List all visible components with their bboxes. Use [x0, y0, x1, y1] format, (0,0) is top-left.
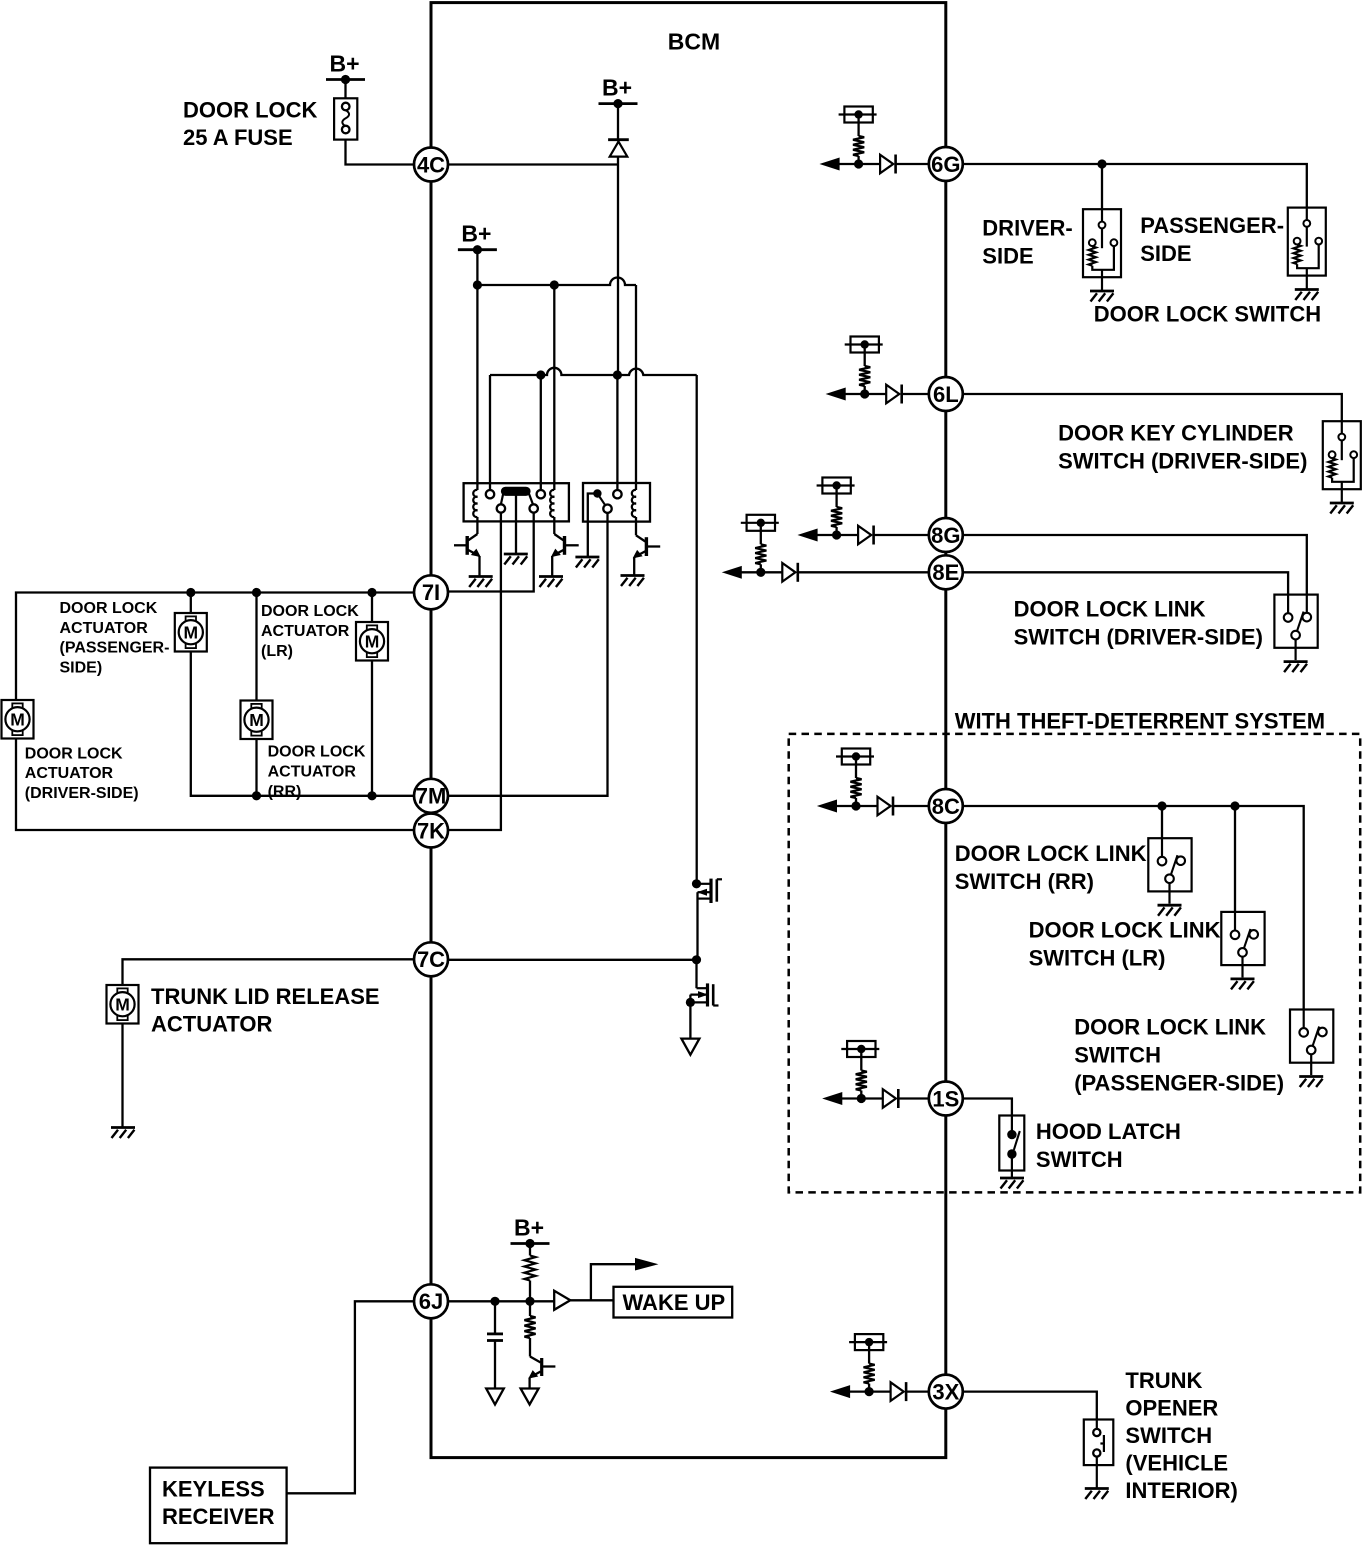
ground (passenger door lock switch)	[1295, 288, 1319, 291]
svg-text:DRIVER-: DRIVER-	[982, 216, 1072, 241]
relay K1 switch pivots	[506, 487, 527, 496]
wire coil1 to Q1	[476, 517, 478, 534]
wire 3X line to CPU arrow	[849, 1390, 869, 1392]
wire 6L line to CPU arrow	[845, 393, 865, 395]
ground (Q3 emitter)	[621, 574, 645, 577]
svg-text:B+: B+	[602, 75, 632, 101]
node actuator RR return	[252, 791, 261, 800]
wire actuator driver return to 7K	[16, 739, 414, 831]
wire 6J internal line	[448, 1300, 554, 1302]
node actuator RR feed	[252, 588, 261, 597]
diode D-1S	[883, 1089, 896, 1108]
relay K1 contact right	[530, 504, 538, 512]
svg-text:INTERIOR): INTERIOR)	[1125, 1478, 1237, 1503]
arrow to CPU (6L)	[827, 388, 845, 400]
wire 8G junction to diode	[837, 534, 859, 536]
wire 7C to trunk actuator	[123, 959, 415, 985]
node actuator LR return	[367, 791, 376, 800]
node rail A at coil1 feed	[473, 280, 482, 289]
diode D-8C	[878, 797, 891, 816]
node 8G junction	[832, 530, 841, 539]
wire 8G line to CPU arrow	[817, 534, 837, 536]
wire 1S junction to diode	[861, 1097, 883, 1099]
svg-text:7I: 7I	[422, 580, 440, 605]
connector 7K	[414, 814, 448, 848]
svg-text:M: M	[365, 631, 380, 651]
svg-text:(RR): (RR)	[268, 784, 302, 801]
door lock switch (passenger-side) lower	[1294, 245, 1301, 264]
node 8C wire source-to-resistor	[855, 757, 857, 779]
wire diode to pin 1S	[898, 1097, 929, 1099]
wire fuse to 4C	[346, 140, 415, 165]
svg-text:DOOR LOCK: DOOR LOCK	[261, 603, 359, 620]
svg-text:WAKE UP: WAKE UP	[623, 1290, 726, 1315]
connector 7I	[414, 575, 448, 609]
svg-text:3X: 3X	[932, 1380, 959, 1405]
svg-text:(PASSENGER-SIDE): (PASSENGER-SIDE)	[1074, 1071, 1284, 1096]
wire cap to arrow	[494, 1341, 496, 1389]
node 6L pull-up source box	[851, 337, 879, 353]
wire 7C internal	[448, 959, 697, 961]
svg-text:KEYLESS: KEYLESS	[162, 1476, 265, 1501]
motor door lock actuator (driver-side)	[2, 700, 34, 739]
node 8G pull-up source box	[822, 478, 850, 494]
svg-text:DOOR LOCK: DOOR LOCK	[60, 600, 158, 617]
wire 8E line to CPU arrow	[741, 571, 761, 573]
ground (key cylinder switch)	[1330, 502, 1354, 505]
svg-text:8G: 8G	[931, 523, 960, 548]
svg-text:DOOR LOCK SWITCH: DOOR LOCK SWITCH	[1094, 302, 1321, 327]
node 1S junction	[857, 1094, 866, 1103]
wire 6J to keyless receiver	[287, 1301, 414, 1493]
wire B+ to diode	[617, 104, 619, 142]
buffer U1	[554, 1291, 570, 1310]
wire diode to pin 3X	[906, 1390, 929, 1392]
relay K1 coil 2	[550, 490, 554, 517]
connector 6G	[929, 147, 963, 181]
node 8C pull-up source box	[842, 749, 870, 765]
wire resistor to 6L line	[864, 386, 866, 394]
node 6G wire source-to-resistor	[857, 115, 859, 137]
node 3X junction	[865, 1387, 874, 1396]
door lock switch (driver-side) upper	[1083, 209, 1121, 277]
svg-text:B+: B+	[514, 1215, 544, 1241]
svg-text:DOOR LOCK: DOOR LOCK	[183, 97, 318, 122]
arrow wake-up	[636, 1259, 657, 1270]
svg-text:6G: 6G	[931, 152, 960, 177]
node rail B at relay1 pin	[536, 370, 545, 379]
connector 3X	[929, 1375, 963, 1409]
node actuator LR feed	[367, 588, 376, 597]
wire R2 branch	[529, 1301, 531, 1316]
svg-text:M: M	[184, 622, 199, 642]
arrow to CPU (3X)	[832, 1386, 850, 1398]
arrow to CPU (8E)	[723, 567, 741, 579]
svg-text:SWITCH (LR): SWITCH (LR)	[1029, 945, 1166, 970]
rail B wire	[490, 368, 697, 375]
wire K1 left contact to 7K	[448, 513, 501, 831]
connector 6J	[414, 1284, 448, 1318]
wire driver switch feed	[1101, 164, 1103, 209]
node rail A at coil2 feed	[550, 280, 559, 289]
ground (trunk actuator)	[111, 1126, 135, 1129]
diode D-3X	[891, 1382, 904, 1401]
relay K1 pin2 contact	[486, 490, 494, 498]
svg-text:7M: 7M	[416, 784, 447, 809]
svg-text:M: M	[249, 710, 264, 730]
svg-text:SWITCH: SWITCH	[1036, 1147, 1123, 1172]
svg-text:ACTUATOR: ACTUATOR	[25, 765, 114, 782]
door lock switch (passenger-side) upper	[1288, 208, 1326, 276]
door key cylinder switch lower	[1329, 458, 1336, 477]
svg-text:8C: 8C	[932, 794, 960, 819]
svg-text:B+: B+	[461, 221, 491, 247]
wire diode branch down	[617, 157, 619, 375]
wire trunk actuator to ground	[121, 1024, 123, 1128]
wire 6L junction to diode	[865, 393, 887, 395]
motor door lock actuator (LR)	[356, 622, 388, 661]
wire resistor to 8E line	[760, 564, 762, 572]
svg-text:M: M	[115, 994, 130, 1014]
ground (link switch passenger)	[1299, 1075, 1323, 1078]
node 8E junction	[756, 568, 765, 577]
wire diode feed to relay2 pin	[616, 375, 618, 490]
wire 8G to link switch right pin	[963, 535, 1307, 595]
svg-text:6L: 6L	[933, 382, 959, 407]
svg-text:SWITCH (DRIVER-SIDE): SWITCH (DRIVER-SIDE)	[1058, 449, 1307, 474]
door key cylinder switch upper	[1323, 421, 1361, 489]
wire R1 to 6J line	[529, 1281, 531, 1302]
relay K2 switch arm	[597, 494, 605, 506]
relay K2 coil	[632, 490, 636, 517]
wire 7M to actuators	[191, 652, 414, 796]
arrow to CPU (8G)	[799, 529, 817, 541]
wire 6L to key cylinder switch	[963, 394, 1342, 421]
relay K2 fixed pivot	[593, 489, 601, 497]
node 8E pull-up source box	[747, 515, 775, 531]
node 6G pull-up source box	[844, 107, 872, 123]
wire actuator RR return	[255, 739, 257, 796]
svg-text:DOOR LOCK LINK: DOOR LOCK LINK	[955, 841, 1147, 866]
svg-text:DOOR LOCK: DOOR LOCK	[25, 745, 123, 762]
resistor R-1S pull-up	[856, 1071, 867, 1091]
ground (link switch driver)	[1284, 660, 1308, 663]
svg-text:ACTUATOR: ACTUATOR	[268, 764, 357, 781]
svg-text:ACTUATOR: ACTUATOR	[151, 1011, 273, 1036]
svg-text:7K: 7K	[417, 818, 445, 843]
resistor R-6G pull-up	[853, 136, 864, 156]
connector 7M	[414, 779, 448, 813]
wire resistor to 6G line	[857, 156, 859, 164]
svg-text:(PASSENGER-: (PASSENGER-	[60, 640, 170, 657]
ground (relay K1 common)	[504, 553, 528, 556]
svg-text:25 A FUSE: 25 A FUSE	[183, 125, 293, 150]
svg-text:HOOD LATCH: HOOD LATCH	[1036, 1119, 1181, 1144]
door lock link switch (passenger-side)	[1290, 1010, 1333, 1063]
connector 8C	[929, 789, 963, 823]
wire wake-up arrow branch	[591, 1264, 636, 1300]
wire 3X to trunk opener switch	[963, 1392, 1097, 1420]
wire B+ down to rail A	[476, 250, 478, 285]
wire 1S to hood latch switch	[963, 1099, 1012, 1116]
arrow to CPU (6G)	[821, 158, 839, 170]
node rail B diode feed	[613, 370, 622, 379]
svg-text:DOOR LOCK LINK: DOOR LOCK LINK	[1029, 917, 1221, 942]
wire link RR feed	[1161, 806, 1163, 838]
wire diode to pin 8E	[798, 571, 929, 573]
motor door lock actuator (RR)	[241, 701, 273, 740]
node actuator P feed	[186, 588, 195, 597]
svg-text:SIDE: SIDE	[982, 244, 1033, 269]
relay K2 box	[583, 483, 650, 522]
wire 8C line to CPU arrow	[836, 805, 856, 807]
node 6L junction	[860, 389, 869, 398]
svg-text:SIDE: SIDE	[1140, 241, 1191, 266]
arrow output to ground	[681, 1039, 699, 1055]
transistor Q3	[636, 535, 645, 541]
wire 8E junction to diode	[761, 571, 783, 573]
door lock link switch (driver-side)	[1274, 595, 1317, 648]
keyless receiver box	[150, 1468, 287, 1544]
wire cap branch	[494, 1301, 496, 1333]
relay K1 contact left	[497, 504, 505, 512]
door lock link switch (LR)	[1221, 912, 1264, 965]
motor trunk lid release actuator	[107, 985, 139, 1024]
svg-text:6J: 6J	[419, 1289, 443, 1314]
diode D1 (vertical)	[608, 138, 629, 141]
node 6J at capacitor	[490, 1297, 499, 1306]
svg-text:(DRIVER-SIDE): (DRIVER-SIDE)	[25, 785, 139, 802]
hood latch switch	[999, 1116, 1024, 1171]
wire K1 right contact to 7I	[448, 513, 534, 592]
wire relay2 coil feed down	[635, 285, 637, 490]
wire 6G junction to diode	[859, 163, 881, 165]
ground (hood latch switch)	[1000, 1177, 1024, 1180]
node 6G junction	[854, 159, 863, 168]
relay K1 pin5 contact	[537, 490, 545, 498]
connector 4C	[414, 148, 448, 182]
resistor R1 wake-up pull-up	[524, 1256, 535, 1281]
wire link LR feed	[1234, 806, 1236, 912]
node 6J at R junction	[525, 1297, 534, 1306]
relay K2 contact	[603, 505, 611, 513]
resistor R-8E pull-up	[755, 544, 766, 564]
svg-text:ACTUATOR: ACTUATOR	[60, 620, 149, 637]
wire K2 coil to Q3	[635, 517, 637, 535]
node 6L wire source-to-resistor	[864, 345, 866, 367]
transistor Q1	[468, 534, 477, 540]
svg-text:(VEHICLE: (VEHICLE	[1125, 1450, 1228, 1475]
connector 8G	[929, 518, 963, 552]
wire actuator RR feed	[255, 593, 257, 701]
svg-text:DOOR LOCK LINK: DOOR LOCK LINK	[1014, 596, 1206, 621]
wire coil1 feed	[476, 285, 478, 490]
node 8G wire source-to-resistor	[835, 486, 837, 508]
wire 3X junction to diode	[869, 1390, 891, 1392]
svg-text:SWITCH: SWITCH	[1125, 1423, 1212, 1448]
svg-text:ACTUATOR: ACTUATOR	[261, 623, 350, 640]
diode D-6G	[880, 155, 893, 174]
wire 7I to actuators	[16, 593, 414, 701]
FET Q5 (low side)	[695, 960, 697, 988]
relay K1 box	[464, 483, 569, 521]
wire diode to pin 6L	[902, 393, 929, 395]
relay K1 switch arm left	[501, 491, 504, 506]
node driver switch feed	[1097, 159, 1106, 168]
wire K1 common to ground	[515, 493, 517, 554]
ground (driver door lock switch)	[1090, 290, 1114, 293]
fuse DOOR LOCK 25A	[334, 98, 357, 139]
wire actuator LR feed	[371, 593, 373, 623]
wire K2 fixed to ground	[588, 494, 598, 558]
node link LR feed	[1230, 801, 1239, 810]
svg-text:RECEIVER: RECEIVER	[162, 1504, 275, 1529]
resistor R-8G pull-up	[831, 507, 842, 527]
resistor R-6L pull-up	[859, 366, 870, 386]
ground (Q2 emitter)	[539, 575, 563, 578]
svg-text:4C: 4C	[417, 152, 445, 177]
svg-text:B+: B+	[329, 51, 359, 77]
connector 6L	[929, 377, 963, 411]
svg-text:PASSENGER-: PASSENGER-	[1140, 213, 1284, 238]
node 1S wire source-to-resistor	[860, 1049, 862, 1071]
relay K1 coil 1	[473, 490, 477, 517]
ground (trunk opener switch)	[1085, 1487, 1109, 1490]
svg-text:(LR): (LR)	[261, 643, 293, 660]
arrow Q6 emitter to ground	[521, 1389, 539, 1405]
resistor R-3X pull-up	[864, 1364, 875, 1384]
door lock switch (driver-side) lower	[1089, 246, 1096, 265]
diode D-6L	[886, 385, 899, 404]
capacitor C1	[487, 1333, 503, 1336]
wire rail B left end down	[489, 375, 491, 490]
connector 1S	[929, 1082, 963, 1116]
wire 8C to link switches	[963, 806, 1304, 1010]
wire 6G line to CPU arrow	[839, 163, 859, 165]
svg-text:TRUNK: TRUNK	[1125, 1368, 1202, 1393]
svg-text:TRUNK LID RELEASE: TRUNK LID RELEASE	[151, 984, 380, 1009]
arrow cap to ground	[486, 1389, 504, 1405]
node 3X pull-up source box	[855, 1334, 883, 1350]
wire coil2 to Q2	[553, 517, 555, 534]
svg-text:BCM: BCM	[668, 29, 720, 55]
svg-text:WITH THEFT-DETERRENT SYSTEM: WITH THEFT-DETERRENT SYSTEM	[955, 708, 1325, 733]
svg-text:7C: 7C	[417, 947, 445, 972]
ground (link switch RR)	[1158, 904, 1182, 907]
wake up box	[614, 1287, 733, 1318]
wire 8E to link switch left pin	[963, 572, 1288, 594]
wire 6G to door lock switches	[963, 164, 1307, 208]
svg-text:SWITCH: SWITCH	[1074, 1043, 1161, 1068]
wire 8C junction to diode	[856, 805, 878, 807]
connector 7C	[414, 942, 448, 976]
door lock link switch (RR)	[1148, 838, 1191, 891]
svg-text:DOOR LOCK: DOOR LOCK	[268, 744, 366, 761]
diode D-8E	[782, 563, 795, 582]
resistor R2	[524, 1316, 535, 1338]
wire B+ to fuse	[344, 80, 346, 99]
wire resistor to 3X line	[868, 1384, 870, 1392]
wire diode to pin 6G	[896, 163, 929, 165]
svg-text:DOOR LOCK LINK: DOOR LOCK LINK	[1074, 1015, 1266, 1040]
arrow to CPU (1S)	[824, 1093, 842, 1105]
transistor Q2	[554, 534, 563, 540]
wire K2 contact to 7M	[448, 513, 608, 796]
wire coil2 feed down	[553, 285, 555, 490]
rail A wire	[477, 278, 636, 285]
ground (relay K2 fixed)	[575, 556, 599, 559]
wire buffer output	[570, 1299, 613, 1301]
svg-text:DOOR KEY CYLINDER: DOOR KEY CYLINDER	[1058, 421, 1294, 446]
FET Q4 (high side)	[692, 879, 701, 888]
node link RR feed	[1157, 801, 1166, 810]
ground (Q1 emitter)	[469, 575, 493, 578]
BCM module box	[431, 3, 946, 1458]
svg-text:M: M	[10, 709, 25, 729]
node 8C junction	[851, 801, 860, 810]
wire 1S line to CPU arrow	[841, 1097, 861, 1099]
wire relay1 pin5 feed	[540, 375, 542, 490]
wire B+ to R1	[529, 1244, 531, 1256]
motor door lock actuator (passenger-side)	[175, 613, 207, 652]
svg-text:1S: 1S	[932, 1086, 959, 1111]
svg-text:8E: 8E	[932, 560, 959, 585]
ground (link switch LR)	[1231, 978, 1255, 981]
svg-text:OPENER: OPENER	[1125, 1395, 1218, 1420]
wire diode to pin 8G	[874, 534, 929, 536]
diode D-8G	[858, 526, 871, 545]
resistor R-8C pull-up	[850, 778, 861, 798]
trunk opener switch	[1084, 1420, 1114, 1466]
svg-text:SWITCH (RR): SWITCH (RR)	[955, 869, 1094, 894]
svg-text:SWITCH (DRIVER-SIDE): SWITCH (DRIVER-SIDE)	[1014, 624, 1263, 649]
wire resistor to 8C line	[855, 798, 857, 806]
relay K1 switch arm right	[528, 490, 534, 505]
node 1S pull-up source box	[847, 1041, 875, 1057]
wire actuator P feed	[190, 593, 192, 614]
node 3X wire source-to-resistor	[868, 1342, 870, 1364]
wire actuator LR return	[371, 661, 373, 796]
relay K2 pin contact	[613, 490, 621, 498]
theft-deterrent dashed box	[789, 734, 1360, 1193]
wire resistor to 8G line	[835, 527, 837, 535]
svg-text:SIDE): SIDE)	[60, 660, 103, 677]
node 7C output junction	[692, 955, 701, 964]
connector 8E	[929, 555, 963, 589]
wire diode to pin 8C	[893, 805, 929, 807]
wire 4C to diode branch	[448, 163, 618, 165]
arrow to CPU (8C)	[819, 800, 837, 812]
wire resistor to 1S line	[860, 1091, 862, 1099]
wire rail B to FET drain	[696, 375, 698, 884]
transistor Q6	[529, 1338, 531, 1357]
node 8E wire source-to-resistor	[760, 523, 762, 545]
